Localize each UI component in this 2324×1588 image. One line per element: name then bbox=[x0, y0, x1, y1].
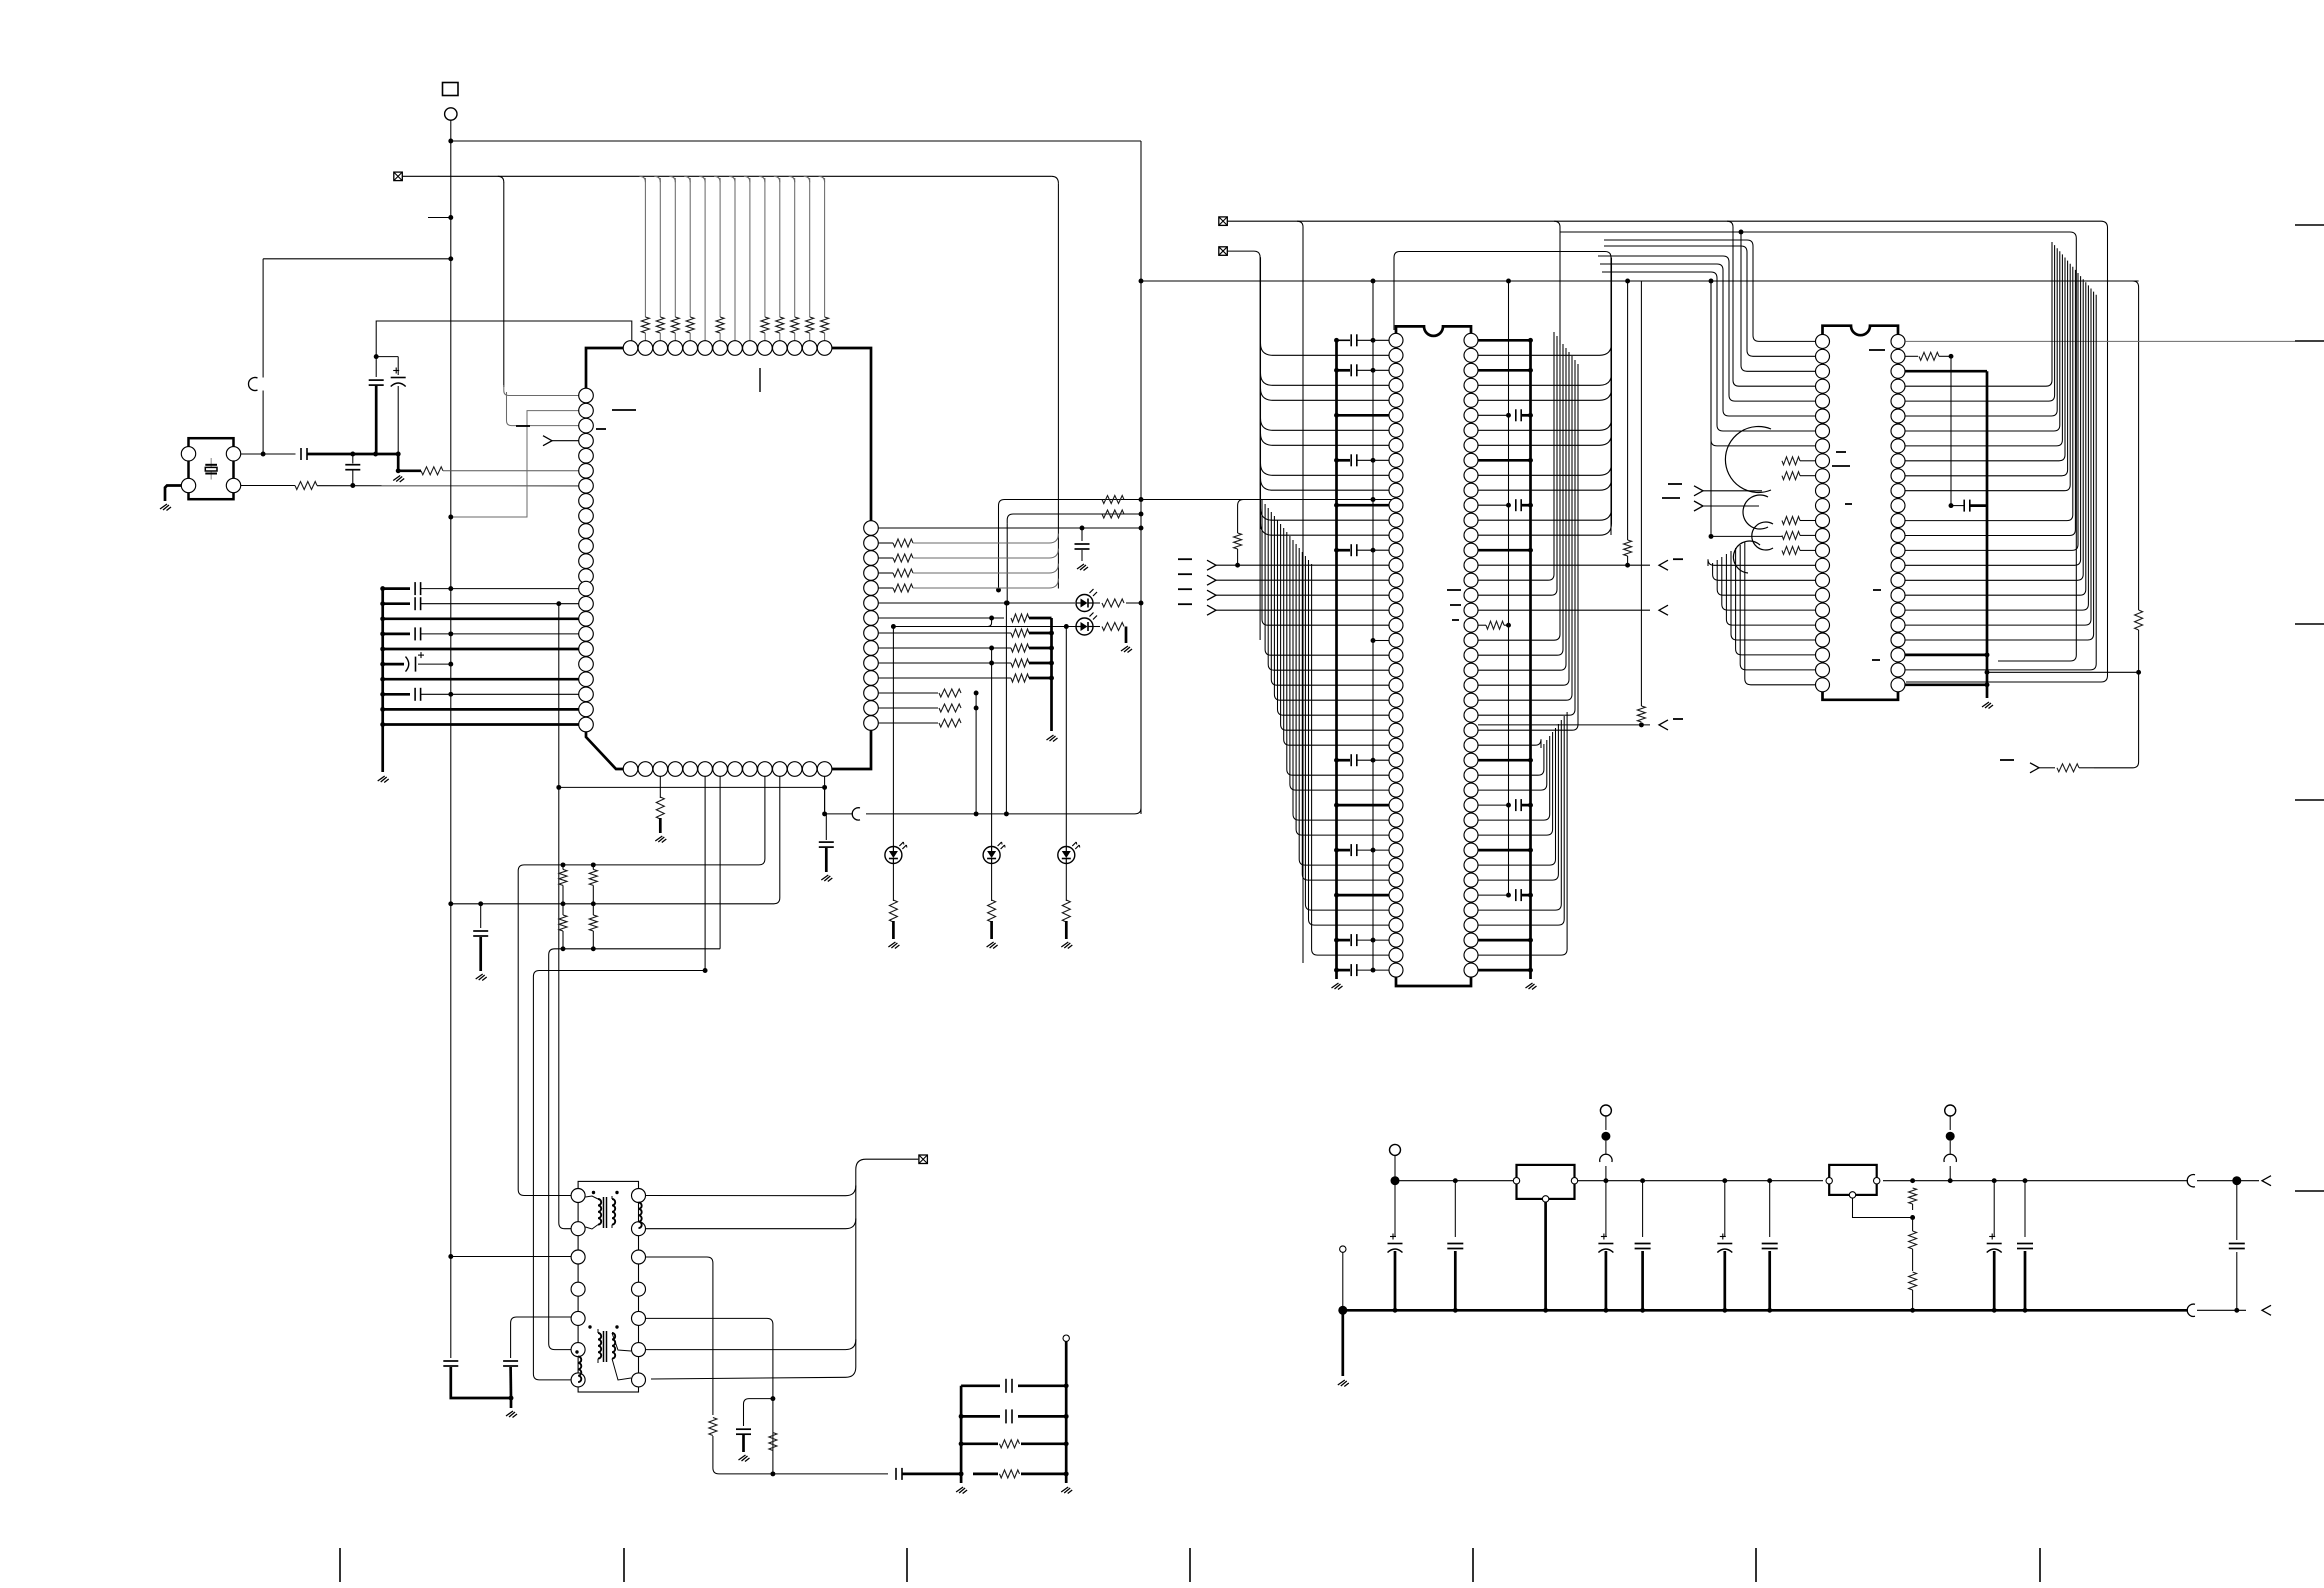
wire y221 corner1 bbox=[1297, 221, 1303, 963]
wire bbox=[1522, 804, 1531, 807]
U2 right pin 45 bbox=[1464, 333, 1478, 347]
wire U2 R74 long bbox=[1478, 740, 1547, 790]
node X-connector ⊠B bbox=[919, 1155, 928, 1164]
T-block right pin 11 bbox=[632, 1282, 646, 1296]
resistor R5 bbox=[589, 869, 597, 885]
U1 top pin 8 bbox=[728, 341, 743, 356]
junction bbox=[1639, 722, 1644, 727]
U3 left pin 16 bbox=[1816, 558, 1830, 572]
wire U3 L8 bbox=[1711, 281, 1815, 446]
wire bbox=[1029, 632, 1052, 635]
wire U2 L36 long bbox=[1299, 548, 1389, 865]
U2 right pin 83 bbox=[1464, 903, 1478, 917]
wire R1 to U1 pin6 bbox=[443, 470, 579, 472]
U3 right pin 34 bbox=[1891, 469, 1905, 483]
junction bbox=[1139, 497, 1144, 502]
wire bbox=[1029, 677, 1052, 680]
wire y252b left bbox=[1394, 252, 1400, 331]
junction bbox=[1528, 503, 1533, 508]
wire bbox=[383, 602, 410, 605]
op-amp U2 outline bbox=[1396, 326, 1471, 986]
wire rowA cont bbox=[1100, 499, 1396, 501]
U2 left pin 27 bbox=[1389, 723, 1403, 737]
wire rowA y500 bbox=[999, 500, 1101, 591]
junction bbox=[1139, 526, 1144, 531]
wire bbox=[1478, 849, 1531, 852]
wire T R5 down bbox=[646, 1318, 773, 1393]
border tick bottom bbox=[1472, 1548, 1474, 1582]
wire x1007 down bbox=[1006, 523, 1008, 603]
wire C8 down bbox=[451, 1367, 511, 1398]
arrow input U1 pin4 bbox=[543, 436, 579, 446]
wire U3 R37 long bbox=[1905, 267, 2073, 521]
wire U1 top pin14 bbox=[824, 178, 826, 317]
junction bbox=[1049, 646, 1054, 651]
resistor R16 bbox=[769, 1433, 777, 1451]
junction big bbox=[1946, 1132, 1955, 1141]
U2 right pin 82 bbox=[1464, 888, 1478, 902]
wire U2 L23 long bbox=[1268, 508, 1389, 670]
junction bbox=[350, 483, 355, 488]
U1 right pin R11 bbox=[864, 671, 879, 686]
wire C9 down bbox=[509, 1367, 512, 1398]
resistor bbox=[1011, 674, 1029, 682]
U1 right pin R8 bbox=[864, 626, 879, 641]
terminal P1 bbox=[445, 108, 457, 120]
U3 right pin 26 bbox=[1891, 349, 1905, 363]
U1 left pin L13 bbox=[579, 569, 594, 584]
resistor R3 bbox=[656, 797, 664, 819]
wire bbox=[562, 904, 564, 915]
border tick bottom bbox=[1189, 1548, 1191, 1582]
resistor bbox=[893, 569, 913, 577]
U3 right pin 33 bbox=[1891, 454, 1905, 468]
LED D4 bbox=[983, 842, 1005, 864]
U1 bottom pin 22 bbox=[728, 762, 743, 777]
wire y1474 bold bbox=[902, 1473, 961, 1476]
wire U1 R3 stub bbox=[878, 557, 893, 559]
U1 left pin L12 bbox=[579, 554, 594, 569]
wire U2 L28 long bbox=[1284, 528, 1389, 745]
wire ⊠2 right bbox=[1227, 250, 1254, 252]
wire U1 R10 row bbox=[878, 662, 1011, 664]
junction bbox=[448, 215, 453, 220]
capacitor bbox=[1351, 754, 1357, 766]
wire bbox=[383, 723, 579, 726]
wire U2 R80 long bbox=[1478, 724, 1558, 880]
wire U2 R60 long bbox=[1478, 332, 1554, 580]
ground G19 bbox=[1338, 1380, 1349, 1387]
wire U1 top pin8 bbox=[734, 178, 736, 341]
resistor RT14 bbox=[821, 317, 829, 333]
wire bbox=[383, 693, 410, 696]
wire X1 pin2 right bbox=[241, 453, 296, 455]
wire bbox=[1478, 939, 1531, 942]
wire ⊠1 rail y221 bbox=[1227, 220, 2101, 222]
junction bbox=[989, 646, 994, 651]
wire U4 gnd bbox=[1544, 1202, 1547, 1310]
junction bbox=[1985, 670, 1990, 675]
U2 right pin 79 bbox=[1464, 843, 1478, 857]
bold gnd rail x1051 bbox=[1050, 618, 1053, 731]
wire bbox=[1641, 1251, 1644, 1310]
U3 right pin 43 bbox=[1891, 603, 1905, 617]
rail A bbox=[960, 1386, 963, 1483]
wire bbox=[1642, 1181, 1644, 1237]
wire rail1 to T1 bbox=[518, 880, 571, 1196]
wire U3 R40 long bbox=[1905, 276, 2080, 565]
U1 top pin 4 bbox=[668, 341, 683, 356]
U1 left pin L6 bbox=[579, 464, 594, 479]
wire bbox=[1723, 1251, 1726, 1310]
wire loop2 bbox=[1560, 232, 2076, 661]
border tick bottom bbox=[339, 1548, 341, 1582]
LED D3 bbox=[885, 842, 907, 864]
capacitor C8 bbox=[443, 1361, 458, 1366]
U1 left pin L23 bbox=[579, 717, 594, 732]
junction bbox=[1371, 758, 1376, 763]
wire bbox=[1627, 556, 1629, 565]
wire x559 down to T1 bbox=[559, 604, 571, 1229]
resistor R6 bbox=[559, 915, 567, 931]
wire led2 row bbox=[900, 626, 1100, 628]
wire gray curl bbox=[913, 549, 1058, 558]
transformer T1 secondary bbox=[612, 1196, 615, 1228]
wire bbox=[1337, 339, 1351, 341]
wire U2 L7 long bbox=[1261, 418, 1390, 430]
wire U2 L13 long bbox=[1261, 508, 1390, 520]
U1 bottom pin 26 bbox=[787, 762, 802, 777]
wire U2 R65 long bbox=[1478, 344, 1563, 655]
wire U3 L1 bbox=[1604, 240, 1815, 341]
U1 left pin L19 bbox=[579, 657, 594, 672]
wire U3 L2 bbox=[1604, 246, 1815, 356]
wire C4 down bbox=[397, 386, 399, 454]
resistor R21 bbox=[1486, 621, 1504, 629]
wire U2 L20 long bbox=[1262, 500, 1389, 625]
U3 left pin 14 bbox=[1816, 529, 1830, 543]
wire bbox=[2024, 1251, 2027, 1310]
wire right cap bbox=[2236, 1181, 2238, 1311]
junction bbox=[1625, 279, 1630, 284]
wire U3 L21 bbox=[1731, 551, 1815, 640]
arrow input U2-2 bbox=[1207, 575, 1389, 585]
hop conn bbox=[1600, 1154, 1612, 1162]
resistor bbox=[1011, 644, 1029, 652]
wire U2 right curl column bbox=[1611, 258, 1613, 525]
capacitor electrolytic bbox=[1388, 1234, 1403, 1253]
capacitor electrolytic bbox=[406, 652, 425, 672]
ground G8 bbox=[821, 875, 832, 882]
wire feed U1 pin3 bbox=[507, 392, 580, 426]
wire U2 left curl column bbox=[1260, 257, 1262, 529]
junction bbox=[380, 616, 385, 621]
T-block right pin 10 bbox=[632, 1250, 646, 1264]
wire cap branch bbox=[744, 1399, 773, 1426]
wire bbox=[1394, 1156, 1396, 1181]
wire rail3 to T1 bbox=[549, 958, 571, 1350]
U1 bottom pin 20 bbox=[698, 762, 713, 777]
U3 right pin 46 bbox=[1891, 648, 1905, 662]
U2 right pin 81 bbox=[1464, 873, 1478, 887]
wire bbox=[1711, 281, 1782, 536]
wire bbox=[592, 865, 594, 870]
wire y176 corner bbox=[819, 176, 825, 182]
arrow out bbox=[2262, 1176, 2271, 1186]
junction bbox=[1640, 1178, 1645, 1183]
wire U1 top pin6 bbox=[704, 178, 706, 341]
junction bbox=[703, 968, 708, 973]
capacitor bbox=[2017, 1244, 2033, 1249]
capacitor C12 bbox=[1006, 1409, 1012, 1423]
wire y1474 bbox=[762, 1473, 888, 1475]
wire y787 link bbox=[559, 786, 825, 788]
resistor R4 bbox=[559, 869, 567, 885]
U1 right pin R5 bbox=[864, 581, 879, 596]
junction bbox=[1334, 368, 1339, 373]
wire bbox=[1912, 1290, 1914, 1310]
wire C6 down bbox=[1081, 550, 1083, 561]
U2 left pin 18 bbox=[1389, 588, 1403, 602]
wire bbox=[2197, 1180, 2259, 1182]
wire bbox=[421, 588, 579, 590]
wire bbox=[1337, 804, 1390, 807]
junction bbox=[1603, 1178, 1608, 1183]
wire U1 top pin10 bbox=[764, 178, 766, 317]
junction bbox=[396, 452, 401, 457]
junction bbox=[1948, 1178, 1953, 1183]
U2 left pin 9 bbox=[1389, 453, 1403, 467]
U1 bottom pin 19 bbox=[683, 762, 698, 777]
junction bbox=[591, 862, 596, 867]
junction bbox=[822, 785, 827, 790]
U1 top pin 14 bbox=[817, 341, 832, 356]
junction bbox=[1371, 848, 1376, 853]
junction bbox=[380, 722, 385, 727]
wire U2 R48 long bbox=[1478, 388, 1612, 400]
transformer T1 dots bbox=[592, 1191, 619, 1194]
wire U2 L4 long bbox=[1261, 373, 1390, 385]
wire U1 R1 row bbox=[878, 527, 1141, 529]
resistor R9 bbox=[1102, 510, 1124, 518]
hop bbox=[852, 808, 860, 820]
junction bbox=[1139, 601, 1144, 606]
wire bbox=[1357, 759, 1389, 761]
ground G7 bbox=[1047, 735, 1058, 742]
arc jumper 4 bbox=[1733, 541, 1760, 573]
U2 right pin 65 bbox=[1464, 633, 1478, 647]
arrow input U3b bbox=[1694, 501, 1759, 511]
junction bbox=[350, 452, 355, 457]
wire U2 arrow row3 bbox=[1478, 724, 1650, 726]
rail B bbox=[1065, 1341, 1068, 1483]
junction bbox=[1625, 563, 1630, 568]
U3 right pin 44 bbox=[1891, 618, 1905, 632]
wire U2 L42 long bbox=[1312, 564, 1389, 955]
transformer T1 chain coil bbox=[639, 1203, 642, 1229]
junction bbox=[1004, 601, 1009, 606]
junction bbox=[1371, 638, 1376, 643]
wire bbox=[1605, 1141, 1607, 1154]
junction bbox=[1528, 413, 1533, 418]
wire U1 R6 row bbox=[878, 602, 1075, 604]
wire bbox=[1478, 894, 1509, 896]
ground G4 bbox=[476, 974, 487, 981]
wire bbox=[1800, 549, 1815, 551]
U3 right pin 38 bbox=[1891, 529, 1905, 543]
U2 left pin 19 bbox=[1389, 603, 1403, 617]
wire y176 corner bbox=[669, 176, 675, 182]
wire bbox=[719, 333, 721, 341]
U1 left pin L7 bbox=[579, 479, 594, 494]
wire bbox=[1357, 339, 1389, 341]
U1 left pin L11 bbox=[579, 539, 594, 554]
junction bbox=[1064, 1471, 1069, 1476]
wire bbox=[1357, 939, 1389, 941]
junction bbox=[2234, 1308, 2239, 1313]
junction bbox=[959, 1441, 964, 1446]
wire U2 L33 long bbox=[1293, 540, 1389, 820]
terminal J1 bbox=[1390, 1144, 1401, 1155]
arrow output bbox=[1659, 559, 1683, 570]
U2 right pin 58 bbox=[1464, 528, 1478, 542]
U3 right pin 28 bbox=[1891, 379, 1905, 393]
wire bbox=[689, 333, 691, 341]
U4 pin out bbox=[1571, 1178, 1577, 1184]
wire bbox=[1238, 500, 1260, 566]
resistor R15 bbox=[709, 1418, 717, 1436]
U2 right pin 68 bbox=[1464, 678, 1478, 692]
wire bbox=[1478, 339, 1531, 342]
T-block left pin 5 bbox=[571, 1311, 585, 1325]
junction bbox=[1910, 1215, 1915, 1220]
resistor R10 bbox=[1102, 599, 1124, 607]
U2 right pin 70 bbox=[1464, 708, 1478, 722]
wire U1 top pin2 bbox=[644, 178, 646, 317]
wire U2 R66 long bbox=[1478, 348, 1566, 670]
U2 right pin 87 bbox=[1464, 963, 1478, 977]
LED D1 bbox=[1076, 589, 1097, 612]
wire bbox=[592, 931, 594, 949]
junction bbox=[478, 901, 483, 906]
resistor R12 bbox=[889, 900, 897, 922]
U5 pin in bbox=[1826, 1178, 1832, 1184]
U1 right pin R13 bbox=[864, 701, 879, 716]
U2 left pin 29 bbox=[1389, 753, 1403, 767]
U2 left pin 37 bbox=[1389, 873, 1403, 887]
wire U1 p17 down bbox=[659, 776, 661, 798]
junction bbox=[822, 811, 827, 816]
capacitor C13 bbox=[1964, 500, 1970, 512]
wire C5 stub bbox=[480, 904, 482, 928]
U1 left pin L9 bbox=[579, 509, 594, 524]
resistor R17 bbox=[1000, 1440, 1020, 1448]
wire x976 col bbox=[975, 693, 977, 814]
junction bbox=[1371, 968, 1376, 973]
wire x1373 col bbox=[1372, 281, 1374, 970]
wire U2 L39 long bbox=[1305, 556, 1389, 910]
junction bbox=[1992, 1308, 1997, 1313]
wire x1141 bottom bbox=[1140, 603, 1142, 814]
dash label bbox=[612, 409, 636, 411]
border tick right bbox=[2295, 799, 2324, 801]
U1 right pin R14 bbox=[864, 716, 879, 731]
wire y176 corner bbox=[789, 176, 795, 182]
wire led4 col bbox=[991, 864, 993, 902]
node X-connector ⊠A bbox=[394, 172, 403, 181]
capacitor bbox=[1516, 799, 1521, 811]
resistor bbox=[1011, 659, 1029, 667]
wire y176 corner bbox=[729, 176, 735, 182]
wire y281 rail bbox=[1141, 280, 2139, 282]
U1 left pin L2 bbox=[579, 403, 594, 418]
wire bbox=[1951, 505, 1987, 507]
capacitor bbox=[1516, 889, 1521, 901]
wire U2 R71 long bbox=[1478, 739, 1541, 748]
bus U2 right bbox=[1529, 342, 1532, 979]
ground G9 bbox=[888, 942, 899, 949]
U2 left pin 3 bbox=[1389, 363, 1403, 377]
node X-connector ⊠2 bbox=[1219, 247, 1228, 256]
wire U2 R76 long bbox=[1478, 736, 1550, 820]
junction bbox=[1334, 413, 1339, 418]
capacitor C10 bbox=[736, 1429, 751, 1434]
wire bbox=[1800, 520, 1815, 522]
wire U2 R82 long bbox=[1478, 720, 1561, 910]
junction bbox=[1528, 548, 1533, 553]
wire bbox=[1949, 1166, 1951, 1181]
wire U3 L22 bbox=[1736, 548, 1816, 655]
op-amp U1 outline bbox=[586, 348, 871, 769]
resistor bbox=[1782, 457, 1800, 465]
junction bbox=[1004, 811, 1009, 816]
border tick right bbox=[2295, 1190, 2324, 1192]
wire U2 R56 long bbox=[1478, 508, 1612, 520]
crystal X1 element bbox=[205, 458, 217, 480]
resistor R11 bbox=[1102, 623, 1124, 631]
junction bbox=[1767, 1178, 1772, 1183]
wire bbox=[1640, 281, 1642, 706]
dash label bbox=[1662, 484, 1682, 498]
wire bbox=[1522, 504, 1531, 507]
U1 top pin 7 bbox=[713, 341, 728, 356]
U2 right pin 71 bbox=[1464, 723, 1478, 737]
dash label bbox=[516, 425, 530, 427]
wire bbox=[1357, 969, 1389, 971]
wire U2 R54 long bbox=[1478, 478, 1612, 490]
T-block left pin 1 bbox=[571, 1189, 585, 1203]
junction bbox=[1506, 413, 1511, 418]
wire bbox=[418, 663, 451, 665]
wire bbox=[1993, 1181, 1995, 1237]
junction bbox=[448, 1254, 453, 1259]
wire bbox=[809, 333, 811, 341]
wire R1 left stub bbox=[398, 469, 421, 472]
dash label bbox=[2000, 759, 2014, 761]
junction bbox=[591, 946, 596, 951]
resistor RT3 bbox=[656, 317, 664, 333]
U2 left pin 43 bbox=[1389, 963, 1403, 977]
resistor bbox=[893, 584, 913, 592]
wire stub y217 bbox=[428, 217, 451, 219]
junction bbox=[1064, 1414, 1069, 1419]
junction bbox=[1235, 563, 1240, 568]
U2 right pin 62 bbox=[1464, 588, 1478, 602]
junction bbox=[448, 631, 453, 636]
junction bbox=[1139, 512, 1144, 517]
U3 left pin 7 bbox=[1816, 424, 1830, 438]
U1 top pin 11 bbox=[773, 341, 788, 356]
